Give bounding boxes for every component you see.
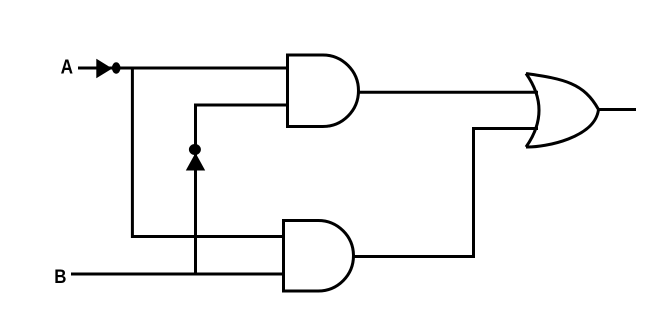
svg-text:B: B [54,266,66,288]
wire: branch from B up to top AND gate lower input [196,105,289,274]
wire: input B horizontal to bottom AND gate [71,273,285,276]
AND gate U2 (bottom) [284,221,354,292]
wire: OR gate output [597,108,636,111]
junction dot on B branch wire [189,144,201,155]
svg-text:A: A [61,55,74,78]
wire: branch from A down and right to bottom AND gate top input [132,68,285,237]
arrowhead on input A wire [97,61,110,77]
wire: input A horizontal to top AND gate [78,67,288,70]
OR gate U3 back (input side) curve [526,74,539,148]
junction dot on input A wire [112,62,121,73]
OR gate U3 body curves [526,74,599,148]
arrowhead (up) on B branch wire [188,155,204,170]
wire: bottom AND output right then up to OR gate bottom input [352,129,538,257]
wire: top AND output to OR gate top input [357,91,538,94]
AND gate U1 (top) [288,55,359,127]
